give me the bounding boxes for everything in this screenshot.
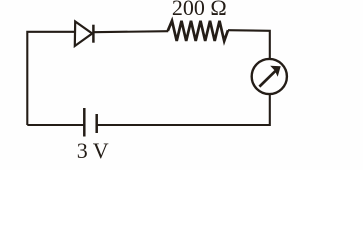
wire top-left horizontal [27,32,75,125]
wire battery to bottom-left corner [27,124,84,126]
svg-text:200 Ω: 200 Ω [172,0,227,20]
svg-text:3 V: 3 V [77,138,109,163]
battery B1 long plate [83,108,86,137]
resistor R1 200 ohm zigzag [168,21,228,41]
diode D1 triangle [75,22,92,47]
galvanometer G circle [252,59,287,94]
galvanometer needle arrow [259,70,276,86]
wire galvanometer to bottom-right corner [97,94,270,125]
wire diode to resistor [93,31,168,32]
wire resistor to top-right corner [228,30,270,58]
battery B1 short plate [95,114,98,133]
diode D1 cathode bar [92,25,95,43]
